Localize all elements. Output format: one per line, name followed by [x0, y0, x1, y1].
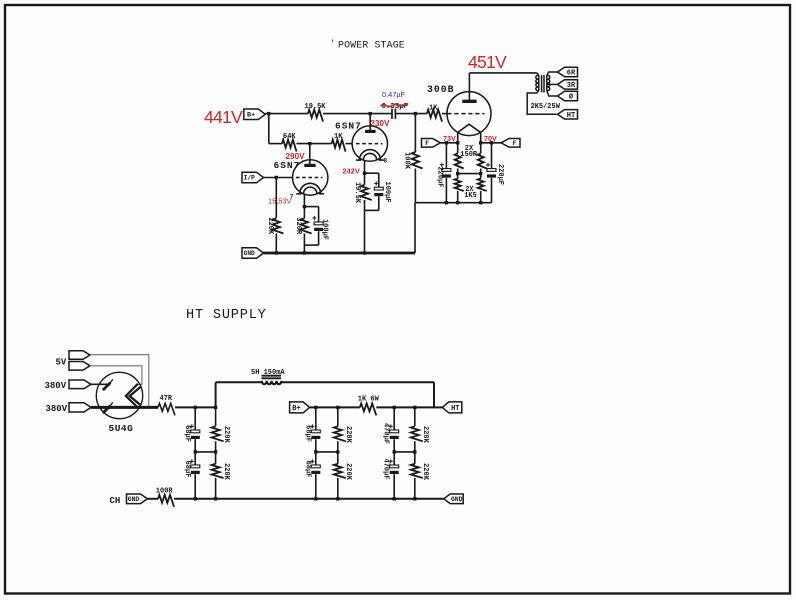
svg-text:230V: 230V [370, 119, 390, 128]
capacitor 68uF lower s1 [191, 465, 200, 468]
resistor 19.5K [308, 110, 323, 122]
terminal F right [501, 139, 520, 148]
capacitor 470uF lower s3 [390, 465, 399, 468]
tube 6SN7 second triode envelope [352, 126, 387, 161]
svg-text:451V: 451V [468, 52, 507, 72]
plus mark 220uF left [440, 164, 444, 166]
svg-text:68µF: 68µF [183, 425, 191, 442]
plus mark 100uF-1 [312, 217, 316, 219]
svg-text:F: F [425, 140, 429, 147]
tube 5U4G envelope [96, 372, 142, 418]
wire res mid lead 68uF s2 [337, 441, 339, 464]
terminal B+ (supply) [290, 402, 310, 413]
wire filament right leg [480, 133, 482, 143]
wire choke bus left [216, 381, 261, 383]
wire HT drop [433, 382, 435, 407]
svg-text:1K5: 1K5 [464, 192, 477, 200]
plate 300B [462, 100, 476, 103]
wire tee to 100uF-2 [365, 172, 379, 174]
plus mark 68uF upper s1 [190, 425, 194, 427]
svg-text:68µF: 68µF [303, 425, 311, 442]
resistor 150R left [455, 154, 464, 169]
wire hum pot mid line [458, 173, 481, 175]
svg-text:64K: 64K [283, 133, 296, 141]
wire cap mid lead 68uF s2 [315, 439, 317, 465]
wire res top lead 220K470uF s3 [414, 407, 416, 426]
svg-text:F: F [513, 140, 517, 147]
svg-text:15,53V: 15,53V [268, 197, 291, 206]
wire cap bottom lead 68uF s1 [194, 474, 196, 499]
svg-text:B+: B+ [292, 405, 300, 413]
resistor 1K5 right [478, 179, 487, 191]
svg-text:68µF: 68µF [183, 461, 191, 478]
junction GND-220K [275, 251, 278, 254]
wire primary bottom lead [527, 91, 556, 115]
svg-text:1K: 1K [334, 133, 343, 141]
wire 220K top lead [275, 178, 277, 219]
wire 5V upper run [90, 355, 149, 408]
resistor 1K5 left [455, 179, 464, 191]
junction bus-1K5-right [479, 201, 482, 204]
svg-text:POWER STAGE: POWER STAGE [338, 40, 405, 51]
wire 6SN7-2 cathode lead [364, 160, 366, 185]
wire ground bus HT [174, 498, 444, 500]
wire secondary mid tap [547, 83, 558, 85]
junction bus-220uF-left [445, 201, 448, 204]
svg-text:8: 8 [384, 158, 388, 165]
junction choke riser [214, 406, 217, 409]
svg-text:220K: 220K [421, 463, 429, 481]
terminal GND (supply) [444, 494, 464, 504]
wire 1K to 300B grid [442, 113, 447, 115]
wire primary top lead [537, 73, 539, 75]
svg-text:220K: 220K [222, 463, 230, 481]
svg-text:1K: 1K [429, 104, 438, 112]
svg-text:6R: 6R [567, 70, 576, 78]
resistor 220K upper (68uF sect) s1 [212, 426, 224, 441]
svg-text:HT SUPPLY: HT SUPPLY [186, 308, 267, 323]
strike-through mark on 0.33uF [381, 104, 409, 107]
resistor 220K lower (68uF sect) s1 [212, 464, 224, 478]
resistor 220K upper (68uF sect) s2 [334, 426, 346, 441]
svg-text:290V: 290V [286, 152, 306, 161]
wire 150R right bottom [480, 169, 482, 174]
junction GND-19.5K [363, 251, 366, 254]
svg-text:100R: 100R [156, 488, 174, 496]
cathode 6SN7-2 arch [360, 150, 381, 161]
capacitor 100uF (6SN7-2) [374, 187, 383, 190]
anode 5U4G upper [103, 383, 111, 391]
resistor 19.5K cathode [361, 185, 372, 200]
wire secondary bottom lead [547, 91, 558, 96]
wire 6SN7-1 cathode lead [303, 194, 305, 219]
junction 220K grid leak top [275, 176, 278, 179]
grid 6SN7-1 dashed [296, 177, 323, 179]
terminal 5V lower [69, 362, 90, 371]
wire 6SN7-2 plate lead [369, 114, 371, 131]
junction right 220uF [490, 141, 493, 144]
wire 220uF right top [491, 143, 493, 169]
svg-text:470µF: 470µF [382, 458, 390, 479]
junction gnd 470uF s3 [393, 497, 396, 500]
junction mid res 68uF s1 [214, 450, 217, 453]
wire B+ row right [376, 406, 434, 408]
junction gnd 220K s3 [413, 497, 416, 500]
svg-text:380V: 380V [45, 381, 67, 391]
wire 380V upper to anode [91, 383, 109, 385]
wire cap mid lead 470uF s3 [393, 439, 395, 465]
wire 1K5 left top [457, 174, 459, 179]
wire secondary top lead [547, 72, 558, 75]
svg-text:19.5K: 19.5K [353, 182, 361, 204]
wire jog-2 [365, 209, 379, 211]
junction mid cap 470uF s3 [393, 450, 396, 453]
resistor 150R right [478, 154, 487, 169]
junction left filament node [456, 141, 459, 144]
svg-text:0.47µF: 0.47µF [382, 90, 406, 99]
junction gnd 220K s2 [336, 497, 339, 500]
wire 320R to bus [303, 234, 305, 254]
wire 300B plate lead up [468, 73, 470, 100]
resistor 320R [301, 218, 312, 233]
junction gnd 68uF s2 [314, 497, 317, 500]
wire tee to 100uF [304, 206, 318, 208]
transformer primary winding [538, 75, 540, 90]
wire res bottom lead 470uF s3 [414, 478, 416, 499]
choke core [262, 375, 282, 377]
junction mid cap 68uF s1 [194, 450, 197, 453]
terminal 380V upper [69, 380, 91, 389]
junction cathode bypass tee [303, 205, 306, 208]
transformer core [541, 75, 543, 93]
svg-text:I/P: I/P [244, 175, 255, 182]
junction mid res 68uF s2 [336, 450, 339, 453]
wire 1K5 right bottom [480, 191, 482, 203]
wire res top lead 220K68uF s2 [337, 407, 339, 426]
plus mark 68uF upper s2 [310, 425, 314, 427]
wire rail to coupling cap [323, 113, 391, 115]
plus mark 220uF right [486, 164, 490, 166]
wire 150R left top [457, 143, 459, 154]
plus mark 470uF lower s3 [389, 460, 393, 462]
wire cap bottom lead 470uF s3 [393, 474, 395, 499]
wire cap mid lead 68uF s1 [194, 439, 196, 465]
plate 6SN7-2 [365, 130, 376, 133]
wire 64K to 1K [297, 143, 332, 145]
resistor 1K grid stopper 300B [427, 110, 442, 122]
capacitor coupling 0.33uF plates [391, 109, 393, 119]
capacitor 68uF upper s2 [311, 430, 320, 433]
plus mark 68uF lower s2 [310, 460, 314, 462]
capacitor 220uF left [442, 169, 451, 172]
resistor 100R [158, 495, 174, 507]
capacitor 100uF (6SN7-1 cathode) [314, 222, 323, 225]
junction filter cap 1 top [194, 406, 197, 409]
svg-text:220K: 220K [344, 426, 352, 444]
wire 1K to 6SN7 grid [346, 143, 353, 145]
junction B+ node [267, 112, 270, 115]
terminal 380V lower [69, 403, 91, 412]
wire 220K to bus [275, 234, 277, 254]
wire HT stub [434, 406, 442, 408]
wire 150R right top [480, 143, 482, 154]
svg-text:CH: CH [110, 496, 121, 506]
junction mid res 470uF s3 [413, 450, 416, 453]
svg-text:100K: 100K [402, 152, 410, 170]
capacitor 68uF upper s1 [191, 430, 200, 433]
wire 100uF-2 bottom [378, 196, 380, 210]
terminal HT (transformer) [558, 110, 578, 119]
resistor 100K grid leak [412, 152, 423, 169]
junction 470uF top [393, 406, 396, 409]
wire choke bus right [281, 381, 434, 383]
svg-text:2K5/25W: 2K5/25W [531, 103, 561, 111]
svg-text:220K: 220K [222, 426, 230, 444]
resistor 220K grid leak [273, 218, 284, 233]
terminal 6R [558, 67, 578, 76]
wire mid junction 68uF s2 [316, 451, 338, 453]
wire return bus down [414, 203, 416, 253]
junction right filament node [479, 141, 482, 144]
choke winding [262, 381, 267, 384]
resistor 220K lower (68uF sect) s2 [334, 464, 346, 478]
wire res top lead 220K68uF s1 [215, 407, 217, 426]
svg-text:6SN7: 6SN7 [335, 120, 362, 131]
cathode 6SN7-1 arch [300, 183, 321, 194]
resistor 1K (interstage) [332, 140, 346, 152]
wire 220uF left top [445, 143, 447, 169]
wire 220uF right bottom [491, 178, 493, 203]
tube 6SN7 first triode envelope [293, 160, 328, 195]
junction mid cap 68uF s2 [314, 450, 317, 453]
terminal F left [422, 139, 441, 148]
wire res mid lead 470uF s3 [414, 441, 416, 464]
plus mark 470uF upper s3 [389, 425, 393, 427]
terminal 3R [558, 80, 578, 89]
filament 300B [458, 124, 481, 132]
wire cap top lead sect 68uF s1 [194, 407, 196, 430]
junction 100K grid leak top [414, 112, 417, 115]
svg-text:GND: GND [128, 496, 140, 503]
svg-text:220µF: 220µF [435, 166, 443, 187]
junction left 220uF [445, 141, 448, 144]
wire 100uF top lead [318, 207, 320, 222]
junction gnd 220K s1 [214, 497, 217, 500]
terminal I/P [242, 172, 264, 183]
filament 5U4G outer [126, 384, 138, 408]
svg-text:47R: 47R [160, 395, 173, 403]
svg-text:5U4G: 5U4G [109, 423, 134, 434]
junction 68uF-2 top [314, 406, 317, 409]
wire 220uF left bottom [445, 178, 447, 203]
wire cap return jog [304, 244, 318, 246]
grid 6SN7-2 dashed [356, 143, 383, 145]
grid wire I/P row [264, 177, 293, 179]
wire cap top lead sect 470uF s3 [393, 407, 395, 430]
junction 220K-3 top [413, 406, 416, 409]
junction mid right [479, 172, 482, 175]
svg-text:470µF: 470µF [382, 423, 390, 444]
wire 100K bottom lead [414, 169, 416, 203]
grid 300B dashed [447, 113, 484, 115]
wire 5V lower run [90, 366, 142, 385]
resistor 64K [282, 140, 297, 152]
wire 19.5K to jog [364, 200, 366, 210]
capacitor 68uF lower s2 [311, 465, 320, 468]
wire B+ rail left segment [265, 113, 308, 115]
wire cathode return bus [415, 202, 492, 204]
terminal B+ (power stage) [244, 109, 265, 120]
svg-text:220K: 220K [344, 463, 352, 481]
terminal GND (power stage) [242, 248, 264, 258]
wire CH GND to 100R [148, 498, 159, 500]
svg-text:242V: 242V [343, 166, 360, 175]
resistor 220K lower (470uF sect) s3 [411, 464, 423, 478]
resistor 1K 6W [360, 403, 377, 415]
wire GND bus [264, 252, 416, 255]
svg-text:300B: 300B [427, 84, 455, 95]
svg-text:220µF: 220µF [496, 164, 504, 185]
junction GND-320R [303, 251, 306, 254]
wire coupling cap to 1K grid stopper [395, 113, 427, 115]
wire 1K5 left bottom [457, 191, 459, 203]
wire res bottom lead 68uF s1 [215, 478, 217, 499]
terminal 0 [558, 91, 578, 100]
junction mid left [456, 172, 459, 175]
svg-text:5V: 5V [56, 357, 67, 367]
svg-text:': ' [330, 39, 335, 49]
capacitor 220uF right [487, 169, 496, 172]
plus mark 100uF-2 [374, 182, 378, 184]
wire mid junction 68uF s1 [195, 451, 215, 453]
junction gnd 68uF s1 [194, 497, 197, 500]
resistor 47R [158, 403, 175, 415]
wire 1K5 right top [480, 174, 482, 179]
junction bus-1K5-left [456, 201, 459, 204]
terminal CH GND [127, 494, 148, 504]
capacitor 470uF upper s3 [390, 430, 399, 433]
wire res bottom lead 68uF s2 [337, 478, 339, 499]
svg-text:HT: HT [451, 405, 459, 413]
svg-text:320R: 320R [294, 217, 302, 235]
anode 5U4G lower [103, 406, 111, 414]
wire 100uF-2 top lead [378, 173, 380, 187]
terminal 5V upper [69, 351, 90, 360]
wire B+ node down to 64K rail [268, 114, 270, 144]
svg-text:380V: 380V [46, 404, 68, 414]
wire res mid lead 68uF s1 [215, 441, 217, 464]
wire 6SN7-1 plate lead [309, 144, 311, 165]
svg-text:441V: 441V [204, 107, 243, 127]
plus mark 68uF lower s1 [190, 460, 194, 462]
wire F left to filament [441, 142, 458, 144]
wire B+ row left [310, 406, 360, 408]
wire cathode-2 to bus [364, 210, 366, 253]
svg-text:19.5K: 19.5K [305, 103, 327, 111]
svg-text:3R: 3R [567, 82, 576, 90]
svg-text:220K: 220K [421, 426, 429, 444]
wire choke riser [215, 382, 217, 407]
wire cap bottom lead 68uF s2 [315, 474, 317, 499]
svg-text:6SN7: 6SN7 [274, 160, 301, 171]
svg-text:100µF: 100µF [321, 219, 329, 240]
svg-text:100µF: 100µF [383, 181, 391, 202]
wire 100K top lead [414, 114, 416, 152]
wire mid junction 470uF s3 [394, 451, 415, 453]
resistor 220K upper (470uF sect) s3 [411, 426, 423, 441]
svg-text:220K: 220K [266, 217, 274, 235]
svg-text:B+: B+ [247, 112, 255, 120]
junction 220K-2 top [336, 406, 339, 409]
wire plate to transformer [469, 72, 537, 74]
svg-text:HT: HT [567, 112, 575, 120]
svg-text:GND: GND [451, 496, 463, 503]
svg-text:150R: 150R [460, 151, 478, 159]
filament 5U4G inner [130, 387, 141, 406]
svg-text:GND: GND [244, 250, 255, 257]
wire to 64K [269, 143, 282, 145]
terminal HT (supply) [442, 402, 462, 413]
wire right filament node [481, 142, 501, 144]
wire cap top lead sect 68uF s2 [315, 407, 317, 430]
junction 6SN7 first plate node [308, 142, 311, 145]
transformer secondary winding [546, 75, 548, 90]
svg-text:68µF: 68µF [303, 461, 311, 478]
wire 100uF bottom [318, 231, 320, 245]
tube 300B envelope [447, 92, 491, 136]
wire 150R left bottom [457, 169, 459, 174]
wire rectifier output (thick) [91, 406, 158, 409]
junction 6SN7 second plate node [369, 112, 372, 115]
wire filament left leg [457, 133, 459, 143]
junction cathode-2 tee [363, 172, 366, 175]
plate 6SN7-1 [304, 164, 315, 167]
svg-text:1K 6W: 1K 6W [358, 396, 380, 404]
wire 47R to filter [175, 406, 216, 408]
